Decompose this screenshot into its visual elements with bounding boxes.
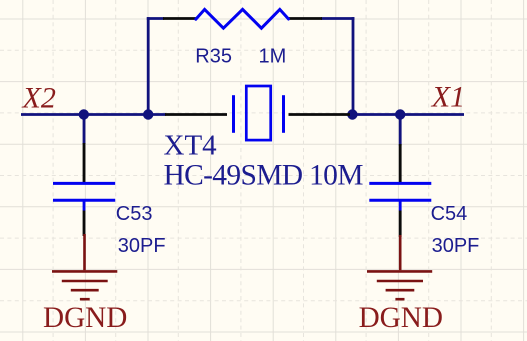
svg-text:X1: X1 [431,81,465,114]
svg-text:HC-49SMD 10M: HC-49SMD 10M [164,160,364,192]
svg-text:30PF: 30PF [432,235,480,257]
ground DGND right pin [399,235,402,270]
svg-text:C54: C54 [431,203,468,225]
crystal XT4 right plate [282,95,285,133]
svg-text:X2: X2 [22,82,56,115]
ground DGND left bar 1 [52,270,117,273]
svg-text:30PF: 30PF [118,235,166,257]
capacitor C54 top plate [369,182,431,185]
ground DGND left bar 4 [80,298,90,301]
crystal XT4 pin 2 [289,113,351,116]
wire C53 branch [83,115,86,145]
crystal XT4 left plate [232,95,235,133]
wire resistor loop top left [147,17,164,20]
capacitor C54 pin 2 [399,211,402,238]
ground DGND right bar 4 [395,298,404,301]
resistor R35 pin 2 [288,17,322,20]
wire resistor loop left vertical [147,17,150,114]
ground DGND right bar 3 [386,289,415,292]
capacitor C53 pin 2 [83,211,86,237]
wire resistor loop right vertical [352,17,355,114]
ground DGND right bar 2 [377,280,423,283]
resistor R35 pin 1 [163,17,196,20]
crystal XT4 pin 1 [165,113,227,116]
ground DGND left bar 2 [62,280,108,283]
wire C54 branch [399,115,402,146]
ground DGND left pin [83,234,86,270]
wire right horizontal to X1 [349,113,464,116]
wire X2 net horizontal [21,113,166,116]
svg-text:1M: 1M [259,46,287,68]
resistor R35 body [196,9,289,28]
capacitor C53 top plate [53,182,115,185]
capacitor C54 bottom plate [369,199,431,202]
capacitor C54 pin 1 [399,144,402,182]
svg-text:R35: R35 [195,46,232,68]
svg-text:XT4: XT4 [164,130,218,162]
ground DGND left bar 3 [71,289,99,292]
wire resistor loop top right [321,17,354,20]
crystal XT4 body rectangle [246,86,270,140]
junction at X1/C54 [395,109,405,119]
svg-text:DGND: DGND [43,302,127,334]
svg-text:C53: C53 [116,203,153,225]
capacitor C53 bottom plate [53,199,115,202]
svg-text:DGND: DGND [359,302,443,334]
junction at R35 right [347,109,357,119]
capacitor C54 pin 2 blue stub [399,200,402,210]
junction at X2/C53 [79,109,89,119]
junction at R35 left [143,109,153,119]
capacitor C53 pin 1 [83,143,86,182]
capacitor C53 pin 2 blue stub [83,200,86,210]
ground DGND right bar 1 [367,270,432,273]
